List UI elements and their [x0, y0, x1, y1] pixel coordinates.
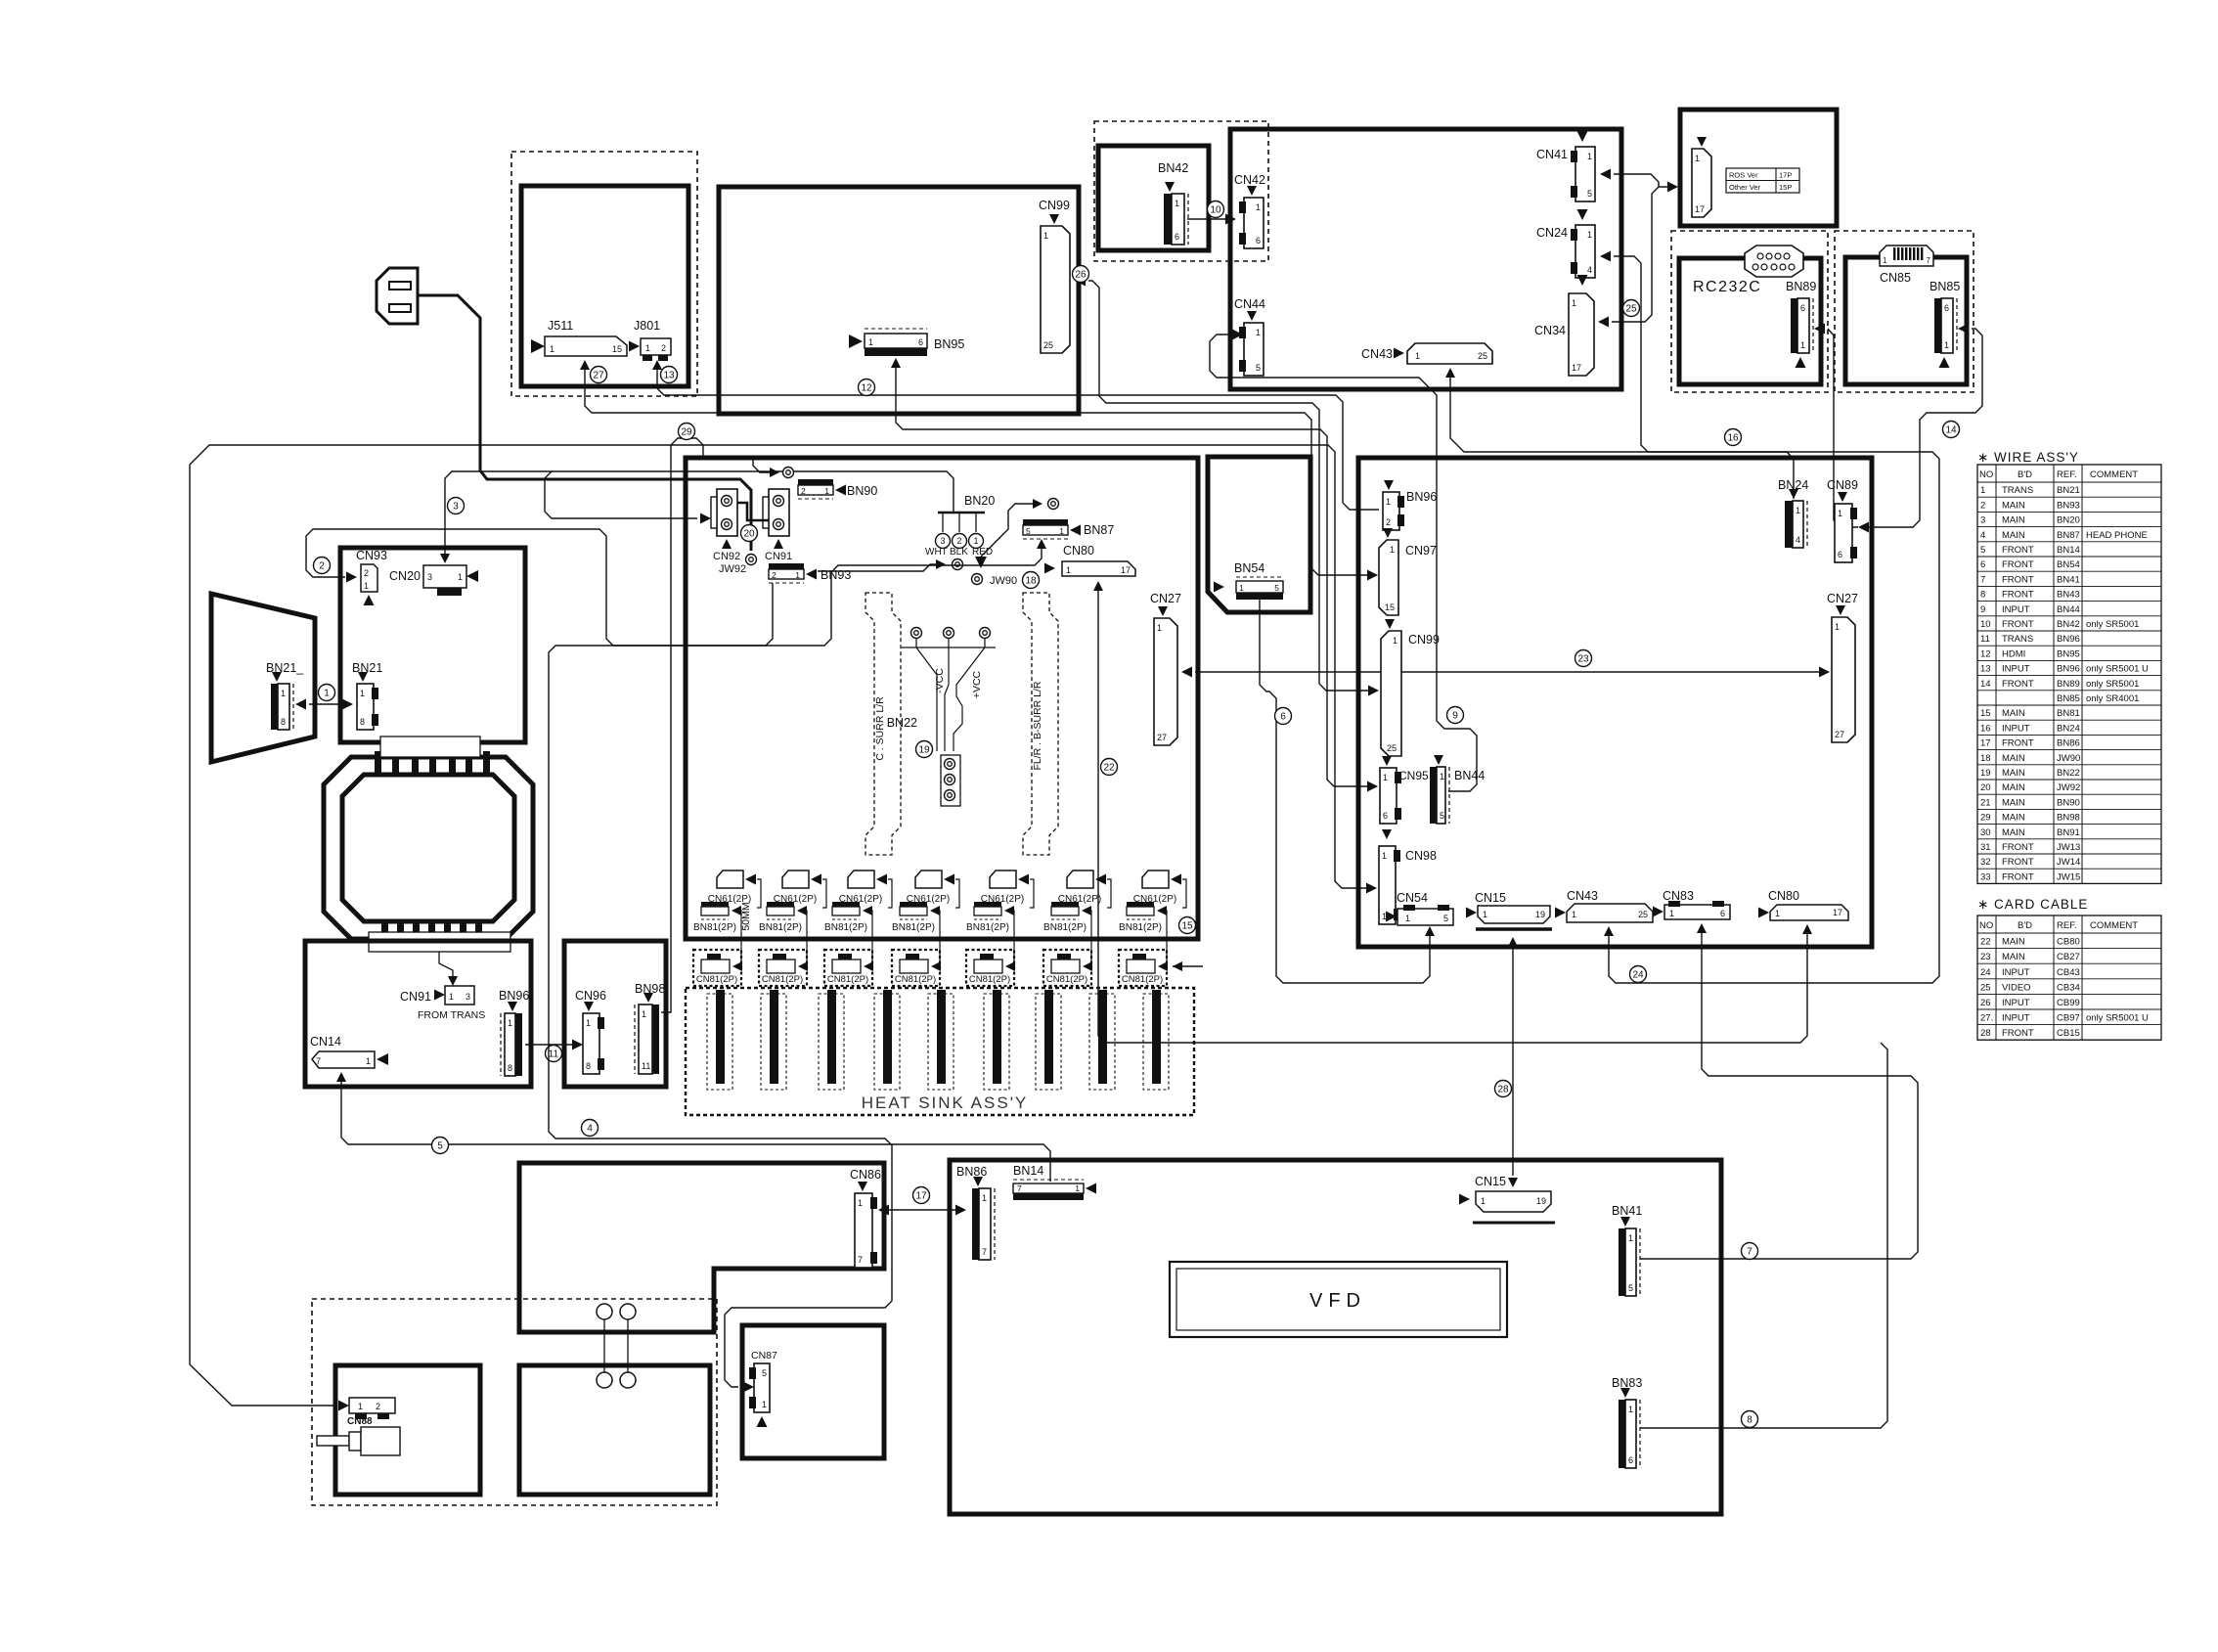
- wire CN61 to BN81 #1: [757, 879, 761, 908]
- svg-text:INPUT: INPUT: [2002, 1013, 2030, 1024]
- svg-text:32: 32: [1980, 857, 1991, 868]
- wire 4 up into BN87: [1037, 539, 1046, 549]
- svg-text:CN91: CN91: [400, 990, 431, 1004]
- dashed enclosure BN42/CN42: [1094, 121, 1268, 261]
- svg-text:23: 23: [1577, 654, 1589, 665]
- dashed enclosure RC232C: [1671, 231, 1828, 392]
- svg-text:BN22: BN22: [2057, 768, 2080, 779]
- svg-text:CN44: CN44: [1234, 297, 1265, 311]
- svg-text:1: 1: [1175, 199, 1179, 208]
- connector CN81(2P) #4 dashed box: [892, 950, 940, 986]
- svg-text:FRONT: FRONT: [2002, 545, 2034, 556]
- svg-text:JW90: JW90: [990, 575, 1017, 587]
- svg-text:MAIN: MAIN: [2002, 708, 2025, 719]
- svg-text:CN15: CN15: [1475, 1175, 1506, 1188]
- svg-text:only SR5001 U: only SR5001 U: [2086, 664, 2149, 675]
- wire 23 CN27 main to CN27 input: [1181, 667, 1192, 678]
- connector BN95 on HDMI board: [865, 328, 927, 330]
- svg-text:BN87: BN87: [1084, 523, 1114, 537]
- svg-text:1: 1: [645, 343, 650, 353]
- svg-text:5: 5: [437, 1141, 443, 1152]
- svg-text:only SR5001 U: only SR5001 U: [2086, 1013, 2149, 1024]
- svg-text:6: 6: [1628, 1455, 1633, 1465]
- svg-text:BN81: BN81: [2057, 708, 2080, 719]
- svg-text:BN98: BN98: [2057, 813, 2080, 824]
- table grid: [1977, 915, 2161, 1040]
- svg-text:INPUT: INPUT: [2002, 604, 2030, 615]
- wire 10 BN42 to CN42: [1187, 218, 1230, 220]
- wire 22 CN80 main to CN80 input: [1093, 581, 1103, 591]
- svg-text:1: 1: [1405, 914, 1410, 923]
- svg-text:12: 12: [1980, 648, 1991, 659]
- svg-text:ROS Ver: ROS Ver: [1729, 171, 1758, 180]
- svg-text:1: 1: [1628, 1405, 1633, 1414]
- connector CN97: [1383, 528, 1393, 538]
- svg-text:14: 14: [1980, 679, 1991, 690]
- wire BN81 to CN81 #4: [935, 911, 940, 965]
- svg-text:CN80: CN80: [1063, 544, 1094, 558]
- channel between transformer and power board: [369, 932, 510, 952]
- svg-text:BN96: BN96: [1406, 490, 1437, 504]
- svg-text:MAIN: MAIN: [2002, 753, 2025, 764]
- svg-text:8: 8: [360, 717, 365, 727]
- svg-text:BN43: BN43: [2057, 590, 2080, 601]
- svg-text:1: 1: [1775, 909, 1780, 918]
- heat sink fin #6: [984, 994, 1009, 1090]
- svg-text:RC232C: RC232C: [1693, 279, 1761, 295]
- trans board (J511/J801): [521, 186, 688, 386]
- AC inlet plug icon: [317, 1436, 349, 1446]
- svg-text:B'D: B'D: [2018, 920, 2032, 931]
- RC232C board: [1679, 258, 1821, 384]
- wire 26 CN99 HDMI to CN99 input: [1075, 276, 1086, 287]
- svg-text:C . SURR L/R: C . SURR L/R: [874, 696, 886, 761]
- screw terminal CN91 main: [769, 489, 789, 536]
- wire AC plug to JW92 screw terminal: [418, 295, 751, 551]
- svg-text:1: 1: [1043, 231, 1048, 241]
- svg-text:21: 21: [1980, 797, 1991, 808]
- svg-text:BN86: BN86: [2057, 738, 2080, 749]
- svg-text:27: 27: [1835, 730, 1844, 739]
- svg-text:CN99: CN99: [1408, 633, 1440, 647]
- svg-text:2: 2: [956, 536, 961, 546]
- wire 25 to CN34: [1598, 317, 1609, 328]
- svg-text:INPUT: INPUT: [2002, 967, 2030, 978]
- CN87 board: [742, 1325, 884, 1458]
- svg-text:CN97: CN97: [1405, 544, 1437, 558]
- svg-text:24: 24: [1980, 967, 1991, 978]
- svg-text:29: 29: [1980, 813, 1991, 824]
- connector CN61(2P) #7: [1142, 871, 1169, 888]
- svg-text:CN83: CN83: [1663, 889, 1694, 903]
- svg-text:BN14: BN14: [1013, 1164, 1043, 1178]
- svg-text:22: 22: [1980, 937, 1991, 948]
- svg-text:CN42: CN42: [1234, 173, 1265, 187]
- svg-text:25: 25: [1478, 351, 1487, 361]
- svg-text:CN81(2P): CN81(2P): [762, 974, 803, 985]
- svg-text:CN86: CN86: [850, 1168, 881, 1182]
- svg-text:FRONT: FRONT: [2002, 679, 2034, 690]
- svg-text:COMMENT: COMMENT: [2090, 469, 2138, 480]
- arrow into last CN81: [1173, 965, 1203, 967]
- svg-text:26: 26: [1980, 998, 1991, 1008]
- svg-text:5: 5: [1440, 811, 1444, 821]
- BN54 board: [1208, 457, 1310, 612]
- wire 6 BN54 to CN54: [1260, 600, 1430, 983]
- heat sink fin #9: [1143, 994, 1169, 1090]
- svg-text:25: 25: [1387, 743, 1397, 753]
- video board: [1230, 129, 1621, 389]
- svg-text:CN81(2P): CN81(2P): [696, 974, 737, 985]
- CN85 board: [1845, 257, 1967, 384]
- svg-text:CN43: CN43: [1361, 347, 1393, 361]
- svg-text:1: 1: [1572, 298, 1576, 308]
- svg-text:FRONT: FRONT: [2002, 738, 2034, 749]
- svg-text:5: 5: [1628, 1283, 1633, 1293]
- connector CN81(2P) #3 dashed box: [824, 950, 872, 986]
- connector BN81(2P) #7: [1127, 902, 1154, 907]
- svg-text:MAIN: MAIN: [2002, 530, 2025, 541]
- svg-text:BN86: BN86: [956, 1165, 987, 1179]
- svg-text:BN89: BN89: [2057, 679, 2080, 690]
- svg-text:20: 20: [743, 529, 755, 540]
- svg-text:MAIN: MAIN: [2002, 782, 2025, 793]
- svg-text:10: 10: [1210, 205, 1221, 216]
- svg-text:CB99: CB99: [2057, 998, 2080, 1008]
- svg-text:BN81(2P): BN81(2P): [824, 922, 867, 933]
- wire BN81 to CN81 #6: [1087, 911, 1091, 965]
- net BN22 speaker wires: [911, 628, 922, 639]
- svg-text:13: 13: [1980, 664, 1991, 675]
- svg-text:JW92: JW92: [719, 563, 746, 575]
- svg-text:BN81(2P): BN81(2P): [1119, 922, 1162, 933]
- svg-text:29: 29: [681, 427, 692, 438]
- wire CN61 to BN81 #7: [1182, 879, 1186, 908]
- heat sink fin #5: [928, 994, 954, 1090]
- svg-text:6: 6: [1800, 303, 1805, 313]
- svg-text:7: 7: [858, 1255, 863, 1265]
- transformer T1 outer: [324, 757, 533, 939]
- svg-text:CN14: CN14: [310, 1035, 341, 1049]
- wire 24 CN43 video to CN43 input: [1445, 368, 1455, 378]
- svg-text:6: 6: [1980, 559, 1985, 570]
- svg-text:1: 1: [795, 570, 800, 580]
- svg-text:31: 31: [1980, 842, 1991, 853]
- svg-text:1: 1: [1066, 565, 1071, 575]
- svg-text:BN81(2P): BN81(2P): [1043, 922, 1087, 933]
- svg-text:MAIN: MAIN: [2002, 500, 2025, 511]
- jumper wire JW90 to screw target: [981, 504, 1035, 557]
- wire 14 BN89 to CN89: [1814, 324, 1825, 335]
- svg-text:19: 19: [1536, 1196, 1546, 1206]
- wire BN81 to CN81 #1: [736, 911, 741, 965]
- link circles between boards: [597, 1304, 612, 1319]
- svg-text:1: 1: [1835, 622, 1840, 632]
- svg-text:CN87: CN87: [751, 1350, 777, 1362]
- svg-text:1: 1: [1800, 340, 1805, 350]
- transformer bottom leads: [381, 923, 388, 950]
- svg-text:9: 9: [1452, 711, 1458, 722]
- ROS version table: [1726, 168, 1799, 193]
- svg-text:7: 7: [1927, 256, 1931, 265]
- screw target right of BN20: [1033, 499, 1042, 509]
- svg-text:1: 1: [642, 1009, 646, 1019]
- svg-text:BN42: BN42: [2057, 619, 2080, 630]
- svg-text:INPUT: INPUT: [2002, 664, 2030, 675]
- svg-text:COMMENT: COMMENT: [2090, 920, 2138, 931]
- svg-text:1: 1: [1883, 256, 1887, 265]
- svg-text:CB27: CB27: [2057, 952, 2080, 962]
- wire CN61 to BN81 #5: [1030, 879, 1034, 908]
- svg-text:1: 1: [1393, 636, 1397, 646]
- svg-text:FRONT: FRONT: [2002, 857, 2034, 868]
- wire CN61 to BN81 #3: [888, 879, 892, 908]
- svg-text:NO: NO: [1979, 469, 1993, 480]
- channel between BN21 board and transformer: [380, 737, 480, 757]
- svg-text:HEAT SINK ASS'Y: HEAT SINK ASS'Y: [862, 1094, 1029, 1112]
- svg-text:CN41: CN41: [1536, 148, 1568, 161]
- wire 9 arrow into CN44: [1232, 330, 1243, 340]
- ROS board connector: [1697, 137, 1707, 147]
- svg-text:JW90: JW90: [2057, 753, 2080, 764]
- connector CN61(2P) #4: [915, 871, 942, 888]
- wire 29 BN98 to main board bus: [661, 438, 703, 1012]
- svg-text:15: 15: [1980, 708, 1991, 719]
- svg-text:1: 1: [1481, 1196, 1486, 1206]
- svg-text:2: 2: [772, 570, 776, 580]
- svg-text:CN34: CN34: [1534, 324, 1566, 337]
- svg-text:BN96: BN96: [499, 989, 529, 1003]
- svg-text:INPUT: INPUT: [2002, 998, 2030, 1008]
- svg-text:CN89: CN89: [1827, 478, 1858, 492]
- svg-text:1: 1: [1483, 910, 1487, 919]
- wire 27 into J511: [580, 360, 590, 370]
- svg-text:B'D: B'D: [2018, 469, 2032, 480]
- svg-text:1: 1: [1157, 623, 1162, 633]
- svg-text:1: 1: [281, 689, 286, 698]
- svg-text:BN96: BN96: [2057, 634, 2080, 645]
- svg-text:6: 6: [1838, 550, 1842, 559]
- svg-text:1: 1: [1075, 1183, 1080, 1193]
- svg-text:1: 1: [1587, 230, 1592, 240]
- connector CN99 input: [1385, 619, 1395, 629]
- svg-text:BN81(2P): BN81(2P): [892, 922, 935, 933]
- svg-text:HEAD PHONE: HEAD PHONE: [2086, 530, 2148, 541]
- dashed slot C.SURR: [865, 593, 901, 855]
- svg-text:6: 6: [1383, 811, 1388, 821]
- svg-text:BN24: BN24: [2057, 723, 2080, 734]
- svg-text:17: 17: [1695, 204, 1705, 214]
- svg-text:1: 1: [1669, 909, 1674, 918]
- svg-text:6: 6: [1944, 303, 1949, 313]
- svg-text:CN81(2P): CN81(2P): [895, 974, 936, 985]
- wire 2 CN93 to BN93: [346, 572, 357, 583]
- svg-text:CN54: CN54: [1397, 891, 1428, 905]
- svg-text:BN93: BN93: [821, 568, 851, 582]
- svg-text:-VCC: -VCC: [934, 668, 946, 693]
- svg-text:1: 1: [550, 344, 554, 354]
- wire CN61 to BN81 #2: [822, 879, 826, 908]
- wire 9 BN44 to CN44 video: [1210, 335, 1477, 791]
- svg-text:4: 4: [1796, 535, 1800, 545]
- svg-text:17: 17: [1572, 363, 1581, 373]
- connector CN61(2P) #6: [1067, 871, 1093, 888]
- wire 17 CN86 to BN86: [880, 1209, 962, 1211]
- svg-text:1: 1: [1383, 773, 1388, 782]
- svg-text:4: 4: [587, 1124, 593, 1135]
- svg-text:11: 11: [1980, 634, 1990, 645]
- heat sink assembly dashed box: [686, 988, 1194, 1115]
- svg-text:1: 1: [1587, 152, 1592, 161]
- svg-text:MAIN: MAIN: [2002, 813, 2025, 824]
- HDMI board: [719, 187, 1079, 414]
- connector CN81(2P) #1 dashed box: [693, 950, 741, 986]
- svg-text:1: 1: [1382, 851, 1387, 861]
- svg-text:BN21: BN21: [2057, 485, 2080, 496]
- dashed enclosure bottom-left: [312, 1299, 717, 1505]
- svg-text:7: 7: [1980, 574, 1985, 585]
- svg-text:BN96: BN96: [2057, 664, 2080, 675]
- wire CN41 to ROS version board: [1600, 169, 1611, 180]
- svg-text:2: 2: [376, 1402, 380, 1411]
- svg-text:25: 25: [1625, 304, 1637, 315]
- svg-text:CN81(2P): CN81(2P): [1046, 974, 1087, 985]
- svg-text:MAIN: MAIN: [2002, 937, 2025, 948]
- wire 14 BN85 to CN89: [1958, 324, 1969, 335]
- svg-text:TRANS: TRANS: [2002, 634, 2033, 645]
- svg-text:13: 13: [663, 371, 675, 381]
- svg-text:1: 1: [1695, 154, 1700, 163]
- svg-text:17: 17: [915, 1191, 927, 1202]
- connector CN85: [1880, 246, 1933, 266]
- svg-text:1: 1: [1980, 485, 1985, 496]
- svg-text:CN81(2P): CN81(2P): [969, 974, 1010, 985]
- connector CN81(2P) #7 dashed box: [1119, 950, 1167, 986]
- svg-text:15: 15: [612, 344, 622, 354]
- svg-text:19: 19: [1535, 910, 1545, 919]
- svg-text:BN42: BN42: [1158, 161, 1188, 175]
- svg-text:1: 1: [1415, 351, 1420, 361]
- svg-text:14: 14: [1945, 425, 1957, 436]
- svg-text:BN21: BN21: [352, 661, 382, 675]
- wire 3 into CN20: [440, 554, 450, 563]
- svg-text:3: 3: [427, 572, 432, 582]
- svg-text:12: 12: [861, 383, 872, 394]
- wire BN81 to CN81 #5: [1009, 911, 1014, 965]
- wire 1 BN21_ to BN21: [295, 699, 306, 710]
- svg-text:TRANS: TRANS: [2002, 485, 2033, 496]
- svg-text:2: 2: [319, 561, 325, 572]
- svg-text:5: 5: [1026, 526, 1031, 536]
- svg-text:20: 20: [1980, 782, 1991, 793]
- svg-text:1: 1: [973, 536, 978, 546]
- connector BN81(2P) #4: [900, 902, 927, 907]
- dashed slot FL/R B-SURR: [1023, 593, 1058, 855]
- svg-text:VIDEO: VIDEO: [2002, 982, 2031, 993]
- svg-text:18: 18: [1025, 576, 1037, 587]
- wire BN93 to JW90 screw: [818, 564, 937, 571]
- svg-text:6: 6: [1280, 712, 1286, 723]
- svg-text:6: 6: [918, 337, 923, 347]
- svg-text:BN44: BN44: [1454, 769, 1485, 782]
- svg-text:50MM: 50MM: [740, 902, 752, 930]
- svg-text:BN81(2P): BN81(2P): [693, 922, 736, 933]
- front board section with BN42: [1098, 146, 1209, 250]
- svg-text:BN85: BN85: [2057, 693, 2080, 704]
- svg-text:8: 8: [1747, 1415, 1752, 1426]
- svg-text:FL/R . B-SURR L/R: FL/R . B-SURR L/R: [1032, 681, 1043, 770]
- svg-text:FRONT: FRONT: [2002, 871, 2034, 882]
- dashed enclosure CN85 board: [1835, 231, 1974, 392]
- svg-text:5: 5: [1274, 583, 1279, 593]
- svg-text:MAIN: MAIN: [2002, 952, 2025, 962]
- svg-text:1: 1: [1628, 1233, 1633, 1243]
- svg-text:FRONT: FRONT: [2002, 590, 2034, 601]
- svg-text:5: 5: [1443, 914, 1448, 923]
- svg-text:24: 24: [1632, 970, 1644, 981]
- svg-text:4: 4: [1980, 530, 1985, 541]
- svg-text:7: 7: [982, 1247, 987, 1257]
- svg-text:8: 8: [281, 717, 286, 727]
- svg-text:7: 7: [1017, 1183, 1022, 1193]
- svg-text:BN41: BN41: [1612, 1204, 1642, 1218]
- svg-text:25: 25: [1980, 982, 1991, 993]
- wire 13 into J801: [652, 360, 662, 370]
- svg-text:28: 28: [1980, 1028, 1991, 1039]
- svg-text:1: 1: [858, 1198, 863, 1208]
- svg-text:19: 19: [918, 745, 930, 756]
- svg-text:25: 25: [1638, 910, 1648, 919]
- svg-text:1: 1: [449, 992, 454, 1002]
- svg-text:REF.: REF.: [2057, 469, 2077, 480]
- VFD display: [1170, 1262, 1507, 1337]
- connector BN81(2P) #6: [1051, 902, 1079, 907]
- svg-text:CB97: CB97: [2057, 1013, 2080, 1024]
- svg-text:CN81(2P): CN81(2P): [827, 974, 868, 985]
- svg-text:17: 17: [1121, 565, 1131, 575]
- svg-text:15P: 15P: [1779, 183, 1792, 192]
- svg-text:CN20: CN20: [389, 569, 421, 583]
- svg-text:INPUT: INPUT: [2002, 723, 2030, 734]
- svg-text:1: 1: [1796, 506, 1800, 515]
- svg-text:3: 3: [940, 536, 945, 546]
- wire from transformer into CN91: [439, 952, 453, 976]
- svg-text:1: 1: [1440, 772, 1444, 781]
- CN96 board: [564, 941, 666, 1087]
- svg-text:1: 1: [360, 689, 365, 698]
- svg-text:1: 1: [1059, 526, 1064, 536]
- heat sink fin #2: [761, 994, 786, 1090]
- connector BN93: [769, 582, 804, 584]
- svg-text:Other Ver: Other Ver: [1729, 183, 1761, 192]
- connector CN81(2P) #6 dashed box: [1043, 950, 1091, 986]
- svg-text:CB15: CB15: [2057, 1028, 2080, 1039]
- svg-text:BLK: BLK: [950, 547, 968, 558]
- dashed enclosure around J511 board: [511, 152, 697, 396]
- svg-text:FROM TRANS: FROM TRANS: [418, 1009, 485, 1021]
- svg-text:BN81(2P): BN81(2P): [966, 922, 1009, 933]
- svg-text:WHT: WHT: [925, 547, 948, 558]
- svg-text:BN54: BN54: [2057, 559, 2080, 570]
- wire into CN92: [700, 513, 711, 524]
- svg-text:MAIN: MAIN: [2002, 768, 2025, 779]
- svg-text:16: 16: [1727, 433, 1739, 444]
- screw terminal CN92: [717, 489, 737, 536]
- connector CN81(2P) #5 dashed box: [966, 950, 1014, 986]
- svg-text:5: 5: [1256, 363, 1261, 373]
- connector CN61(2P) #3: [848, 871, 874, 888]
- svg-text:15: 15: [1181, 921, 1193, 932]
